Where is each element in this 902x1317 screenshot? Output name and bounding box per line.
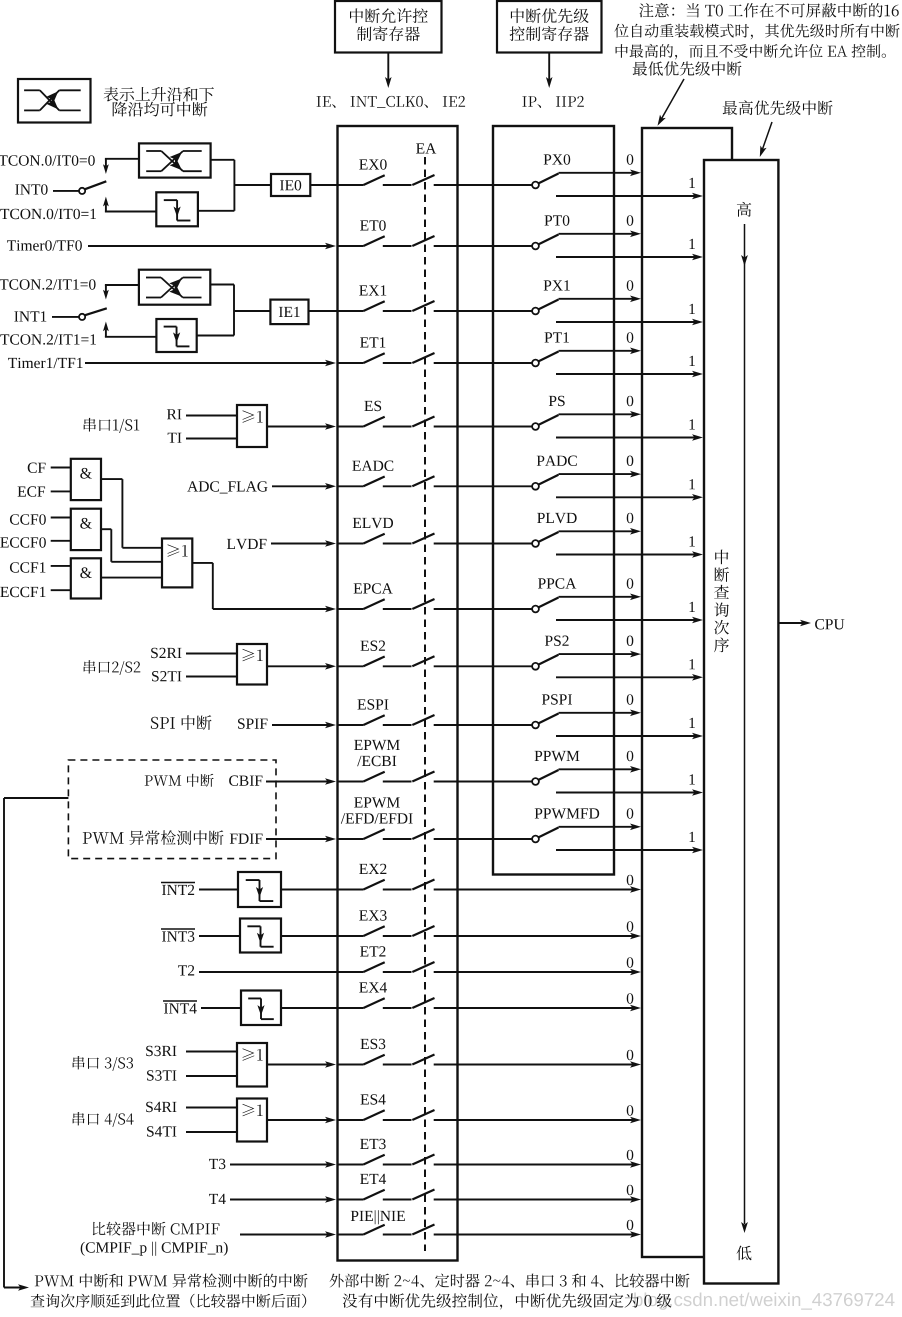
label CCF0 [10, 514, 46, 525]
label highest priority interrupt (最高优先级中断) [723, 100, 833, 115]
label EX3 [359, 910, 386, 921]
label FDIF [230, 834, 263, 844]
wire PT0 priority-1 output to box B [556, 254, 703, 261]
label 0 (PPCA) [627, 578, 634, 589]
wire PADC priority-1 output to box B [556, 494, 703, 501]
label CCF1 [10, 562, 45, 573]
label ES4 [360, 1094, 385, 1105]
and-gate CCF0/ECCF0 [71, 509, 101, 550]
switch EX0 (enable) [338, 175, 458, 185]
wire PPCA priority-0 output to box A [559, 594, 642, 601]
wire INT4 box to EX4 row [281, 1007, 338, 1009]
label INT4 with overline [163, 1001, 197, 1014]
switch PADC (priority select) [493, 475, 559, 490]
label ES2 [360, 641, 385, 652]
label 1 (PPWMFD) [690, 832, 695, 842]
label EX4 [359, 982, 387, 992]
wire ECCF1 input [51, 589, 71, 591]
wire INT1 input to switch [52, 316, 79, 318]
label 0 (PSPI) [627, 694, 634, 705]
label 0 (PX1) [627, 280, 634, 291]
label T2 [178, 965, 194, 975]
arrow from priority register box down to IP labels [546, 53, 553, 89]
wire EPWM/EFD/EFDI row to priority box [458, 838, 494, 840]
wire ET0 row to priority box [458, 245, 494, 247]
label lowest priority interrupt (最低优先级中断) [633, 61, 742, 75]
wire EX4 row fixed priority-0 to box A [458, 1005, 642, 1012]
wire PS priority-1 output to box B [556, 434, 703, 441]
register box IP/IIP2 (中断优先级控制寄存器) [497, 1, 602, 53]
label ESPI [357, 699, 388, 710]
label PLVD [537, 513, 577, 523]
label PWM 异常检测中断 [83, 830, 224, 845]
wire PX0 priority-0 output to box A [559, 170, 642, 177]
label 1 (PT1) [690, 356, 695, 366]
wire S2RI to OR gate [186, 653, 237, 655]
switch position arrows INT1 [103, 285, 109, 337]
label 0 (PLVD) [627, 513, 634, 524]
wire PX0 priority-1 output to box B [556, 193, 703, 200]
label Timer1/TF1 [8, 358, 83, 369]
pointer arrow from 最高优先级中断 to query box B [760, 122, 772, 157]
label ES [364, 401, 381, 412]
label 1 (PPCA) [690, 602, 695, 612]
switch EX3 (enable) [338, 926, 458, 936]
wire EX2 row fixed priority-0 to box A [458, 886, 642, 893]
label 1 (PPWM) [690, 774, 695, 784]
switch EX1 (enable) [338, 301, 458, 311]
label 0 (EX3) [627, 921, 634, 932]
label TI [168, 433, 182, 443]
label Timer0/TF0 [7, 240, 82, 251]
switch ES4 (enable) [338, 1110, 458, 1120]
wire PLVD priority-0 output to box A [559, 528, 642, 535]
switch ET2 (enable) [338, 962, 458, 972]
switch ESPI (enable) [338, 715, 458, 725]
wire IE0 to enable box EX0 row [310, 184, 337, 186]
label 0 (PX0) [627, 154, 634, 165]
label ECCF1 [0, 587, 45, 598]
wire IE1 to enable box EX1 row [309, 310, 338, 312]
wire CCF0 input [51, 517, 71, 519]
or-gate S2 (>=1) [237, 644, 267, 685]
label 低 (low) [737, 1246, 752, 1261]
wire and-gate3 output to PCA OR gate [101, 577, 162, 579]
label PT0 [544, 215, 569, 226]
switch INT0 edge-select pole [79, 181, 106, 194]
switch PSPI (priority select) [493, 714, 559, 729]
wire EX3 row fixed priority-0 to box A [458, 933, 642, 940]
label PX0 [544, 154, 571, 165]
label RI [167, 409, 182, 419]
label 0 (PIE||NIE) [627, 1220, 634, 1231]
label 1 (PLVD) [690, 536, 695, 546]
label EX2 [359, 864, 386, 874]
switch INT1 edge-select pole [79, 308, 107, 320]
wire S2TI to OR gate [186, 676, 237, 678]
label T4 [209, 1194, 226, 1204]
label CPU [815, 619, 844, 630]
label 1 (PADC) [690, 479, 695, 489]
label S3TI [147, 1070, 176, 1081]
wire PT1 priority-1 output to box B [556, 371, 703, 378]
arrow from enable register box down to IE labels [385, 53, 392, 89]
label S4TI [147, 1126, 176, 1137]
label PT1 [544, 332, 569, 342]
switch PPCA (priority select) [493, 598, 559, 613]
switch EX2 (enable) [338, 880, 458, 890]
label S2RI [151, 648, 181, 659]
wire INT4 to falling edge box [201, 1007, 241, 1009]
switch PPWMFD (priority select) [493, 828, 559, 843]
legend box (edge symbol) [18, 79, 91, 123]
watermark blog.csdn.net/weixin_43769724 [634, 1292, 894, 1309]
label 0 (ES4) [627, 1105, 634, 1116]
label PPWM [535, 751, 580, 761]
label PPWMFD [535, 808, 600, 818]
wire PT1 priority-0 output to box A [559, 348, 642, 355]
wire upper branch TCON.0/IT0=0 to edge box [105, 158, 139, 160]
wire ESPI row to priority box [458, 724, 494, 726]
wire ES2 row to priority box [458, 665, 494, 667]
legend text 表示上升沿和下 / 降沿均可中断 [104, 87, 214, 117]
label PSPI [542, 694, 572, 705]
label TCON.2/IT1=0 [0, 279, 96, 290]
label PPCA [538, 578, 576, 589]
falling edge detector box INT4 [241, 991, 281, 1026]
wire edge box outputs join to IE1 [197, 285, 271, 336]
label 0 (PPWMFD) [627, 808, 634, 819]
switch EPWM/EFD/EFDI (enable) [338, 829, 458, 839]
label EADC [352, 461, 393, 472]
wire lower branch TCON.2/IT1=1 to falling-edge box [105, 336, 156, 338]
label SPI 中断 [151, 715, 212, 730]
query order box B (highest priority / 中断查询次序) [704, 160, 778, 1284]
switch ES2 (enable) [338, 656, 458, 666]
wire PCA OR output to EPCA row with arrow [192, 563, 336, 612]
label ECCF0 [0, 537, 46, 548]
label LVDF [227, 539, 267, 549]
label 串口2/S2 [84, 660, 141, 675]
wire PX1 priority-1 output to box B [556, 319, 703, 326]
label 1 (PS) [690, 419, 695, 429]
wire PIE||NIE row fixed priority-0 to box A [458, 1231, 642, 1238]
switch EX4 (enable) [338, 998, 458, 1008]
label T3 [209, 1159, 225, 1170]
label PS2 [545, 636, 569, 647]
wire upper branch TCON.2/IT1=0 to edge box [105, 284, 139, 286]
label 1 (PX0) [690, 178, 695, 188]
wire CPU output with arrow [778, 620, 811, 627]
label EPWM/EFD/EFDI [341, 797, 413, 823]
label 1 (PSPI) [690, 718, 695, 728]
wire CMPIF to PIE||NIE row with arrow [240, 1231, 336, 1238]
label 比较器中断 CMPIF [93, 1222, 220, 1236]
switch PLVD (priority select) [493, 532, 559, 547]
wire ECCF0 input [51, 540, 71, 542]
wire S3RI to OR gate [186, 1051, 237, 1053]
wire ES4 row fixed priority-0 to box A [458, 1117, 642, 1124]
query order arrow high to low [741, 224, 748, 1233]
wire INT0 input to switch [53, 190, 79, 192]
wire PSPI priority-0 output to box A [559, 710, 642, 717]
label PWM 中断 [145, 774, 214, 787]
wire ES3 row fixed priority-0 to box A [458, 1061, 642, 1068]
bottom note right about fixed priority [330, 1273, 690, 1309]
label S4RI [146, 1102, 176, 1113]
label 串口1/S1 [84, 418, 140, 433]
label 高 (high) [737, 202, 751, 217]
label (CMPIF_p || CMPIF_n) [81, 1242, 228, 1256]
label ET1 [360, 337, 385, 347]
label 0 (PS) [627, 396, 634, 407]
label 0 (PPWM) [627, 751, 634, 762]
wire PPWM priority-0 output to box A [559, 766, 642, 773]
label 0 (ET4) [627, 1185, 634, 1196]
wire PLVD priority-1 output to box B [556, 551, 703, 558]
switch EADC (enable) [338, 476, 458, 486]
falling edge detector box INT1 [156, 319, 196, 352]
switch PIE||NIE (enable) [338, 1225, 458, 1235]
switch ELVD (enable) [338, 534, 458, 544]
wire edge box outputs join to IE0 [198, 160, 271, 211]
label EX0 [359, 159, 387, 170]
wire ADC_FLAG to EADC row with arrow [272, 483, 336, 490]
edge detector box INT0 (both edges) [139, 143, 211, 177]
wire INT3 box to EX3 row [281, 935, 338, 937]
label ELVD [353, 518, 393, 528]
label PADC [537, 456, 577, 467]
vertical label 中断查询次序 [714, 550, 729, 653]
wire PS2 priority-1 output to box B [556, 674, 703, 681]
label 1 (PT0) [690, 239, 695, 249]
wire T3 to ET3 row with arrow [230, 1161, 336, 1168]
switch PS (priority select) [493, 415, 559, 430]
feedback wire from PWM group to bottom note [4, 798, 68, 1291]
label ECF [18, 486, 46, 497]
label INT1 [14, 311, 46, 321]
wire S3TI to OR gate [186, 1075, 237, 1077]
wire T2 to ET2 row [199, 971, 338, 973]
wire INT3 to falling edge box [199, 935, 240, 937]
wire PPWMFD priority-1 output to box B [556, 847, 703, 854]
label EPCA [354, 583, 393, 594]
wire S4 OR output to ES4 row with arrow [267, 1117, 336, 1124]
wire SPIF to ESPI row with arrow [272, 722, 336, 729]
wire PADC priority-0 output to box A [559, 471, 642, 478]
label 1 (PX1) [690, 304, 695, 314]
label S3RI [146, 1046, 176, 1057]
switch PT0 (priority select) [493, 235, 559, 250]
wire EADC row to priority box [458, 485, 494, 487]
pointer arrow from 最低优先级中断 to query box A [658, 79, 685, 126]
wire ECF input [51, 490, 71, 492]
switch PS2 (priority select) [493, 655, 559, 670]
interrupt priority box (IP switches) [493, 126, 614, 875]
wire PS2 priority-0 output to box A [559, 651, 642, 658]
switch ET4 (enable) [338, 1190, 458, 1200]
or-gate S4 (>=1) [237, 1099, 267, 1142]
label TCON.0/IT0=0 [0, 155, 95, 166]
wire PS priority-0 output to box A [559, 411, 642, 418]
wire INT2 to falling edge box [199, 889, 238, 891]
switch ET3 (enable) [338, 1155, 458, 1165]
label PX1 [544, 280, 570, 290]
wire S4TI to OR gate [186, 1131, 237, 1133]
flag box IE1 [270, 300, 308, 325]
label PIE||NIE [351, 1210, 405, 1224]
label ET3 [360, 1139, 386, 1150]
wire PPWMFD priority-0 output to box A [559, 824, 642, 831]
label 0 (ES3) [627, 1050, 634, 1061]
wire ET4 row fixed priority-0 to box A [458, 1196, 642, 1203]
label 0 (ET2) [627, 957, 634, 968]
wire T4 to ET4 row with arrow [230, 1196, 336, 1203]
EA master enable dashed line [424, 157, 426, 1251]
falling edge detector box INT2 [238, 872, 281, 907]
wire Timer0/TF0 to ET0 row with arrow [88, 243, 336, 250]
label INT3 with overline [161, 929, 195, 942]
label SPIF [238, 718, 267, 729]
net label IE INT_CLK0 IE2 [317, 96, 466, 108]
note text top right [614, 3, 899, 60]
or-gate S1 (>=1) [237, 405, 267, 447]
switch PX1 (priority select) [493, 300, 559, 315]
falling edge detector box INT0 [156, 192, 198, 226]
wire PPCA priority-1 output to box B [556, 617, 703, 624]
label ES3 [360, 1039, 385, 1050]
wire ET2 row fixed priority-0 to box A [458, 969, 642, 976]
switch ES (enable) [338, 417, 458, 427]
label PS [549, 396, 565, 407]
label 1 (PS2) [690, 659, 695, 669]
wire CF input [51, 467, 71, 469]
wire EX1 row to priority box [458, 310, 494, 312]
wire INT2 box to EX2 row [281, 889, 338, 891]
wire ELVD row to priority box [458, 543, 494, 545]
register box IE/INT_CLK0/IE2 (中断允许控制寄存器) [335, 1, 442, 53]
label EA [416, 143, 436, 153]
switch PX0 (priority select) [493, 174, 559, 189]
dashed group box PWM interrupts [68, 760, 276, 859]
wire and-gate2 output to PCA OR gate [101, 529, 162, 562]
wire S1 OR output to ES row with arrow [267, 423, 336, 430]
label EPWM/ECBI [354, 740, 400, 766]
label ET4 [360, 1174, 386, 1184]
wire EX0 row to priority box [458, 184, 494, 186]
switch PT1 (priority select) [493, 352, 559, 367]
wire RI to OR gate [186, 415, 237, 417]
and-gate CCF1/ECCF1 [71, 558, 101, 598]
label 串口 3/S3 [73, 1056, 133, 1071]
interrupt enable box (IE switches) [338, 126, 458, 1261]
switch ET0 (enable) [338, 236, 458, 246]
or-gate PCA (>=1) [162, 539, 192, 588]
wire and-gate1 output to PCA OR gate [101, 479, 162, 548]
wire LVDF to ELVD row with arrow [271, 540, 336, 547]
label EX1 [359, 285, 386, 295]
label INT0 [15, 184, 47, 195]
net label IP IIP2 [522, 96, 584, 108]
label 0 (PS2) [627, 636, 634, 647]
wire CCF1 input [51, 565, 71, 567]
and-gate CF/ECF [71, 459, 101, 500]
flag box IE0 [271, 174, 310, 196]
switch EPCA (enable) [338, 599, 458, 609]
wire S2 OR output to ES2 row with arrow [267, 663, 336, 670]
switch ES3 (enable) [338, 1055, 458, 1065]
label CF [28, 463, 46, 474]
wire EPWM/ECBI row to priority box [458, 781, 494, 783]
bottom note left about PWM query order [31, 1274, 308, 1308]
wire lower branch TCON.0/IT0=1 to falling-edge box [105, 211, 156, 213]
wire ET3 row fixed priority-0 to box A [458, 1161, 642, 1168]
label INT2 with overline [161, 883, 195, 896]
label ADC_FLAG [187, 481, 267, 493]
switch ET1 (enable) [338, 353, 458, 363]
wire PT0 priority-0 output to box A [559, 231, 642, 238]
or-gate S3 (>=1) [237, 1043, 267, 1087]
label TCON.2/IT1=1 [0, 334, 96, 345]
label 0 (EX4) [627, 993, 634, 1004]
label CBIF [229, 775, 262, 786]
label 0 (PADC) [627, 456, 634, 467]
wire EPCA row to priority box [458, 608, 494, 610]
label ET0 [360, 220, 386, 231]
wire PPWM priority-1 output to box B [556, 789, 703, 796]
wire PSPI priority-1 output to box B [556, 733, 703, 740]
label 0 (PT0) [627, 215, 634, 226]
switch position arrows INT0 [103, 159, 109, 212]
wire S3 OR output to ES3 row with arrow [267, 1061, 336, 1068]
wire PX1 priority-0 output to box A [559, 296, 642, 303]
switch PPWM (priority select) [493, 770, 559, 785]
wire S4RI to OR gate [186, 1107, 237, 1109]
switch EPWM/ECBI (enable) [338, 772, 458, 782]
label S2TI [152, 671, 181, 682]
label 0 (ET3) [627, 1150, 634, 1161]
wire TI to OR gate [186, 438, 237, 440]
wire Timer1/TF1 to ET1 row with arrow [85, 360, 336, 367]
edge detector box INT1 (both edges) [139, 270, 210, 305]
label TCON.0/IT0=1 [0, 209, 96, 220]
wire FDIF to EPWM/EFD row with arrow [266, 836, 336, 843]
query order collector box A (lowest priority) [642, 128, 732, 1257]
falling edge detector box INT3 [240, 919, 281, 953]
wire CBIF to EPWM/ECBI row with arrow [266, 778, 336, 785]
label 串口 4/S4 [73, 1112, 134, 1127]
wire ES row to priority box [458, 426, 494, 428]
label ET2 [360, 946, 385, 956]
wire ET1 row to priority box [458, 362, 494, 364]
label 0 (EX2) [627, 875, 634, 886]
label 0 (PT1) [627, 332, 634, 343]
